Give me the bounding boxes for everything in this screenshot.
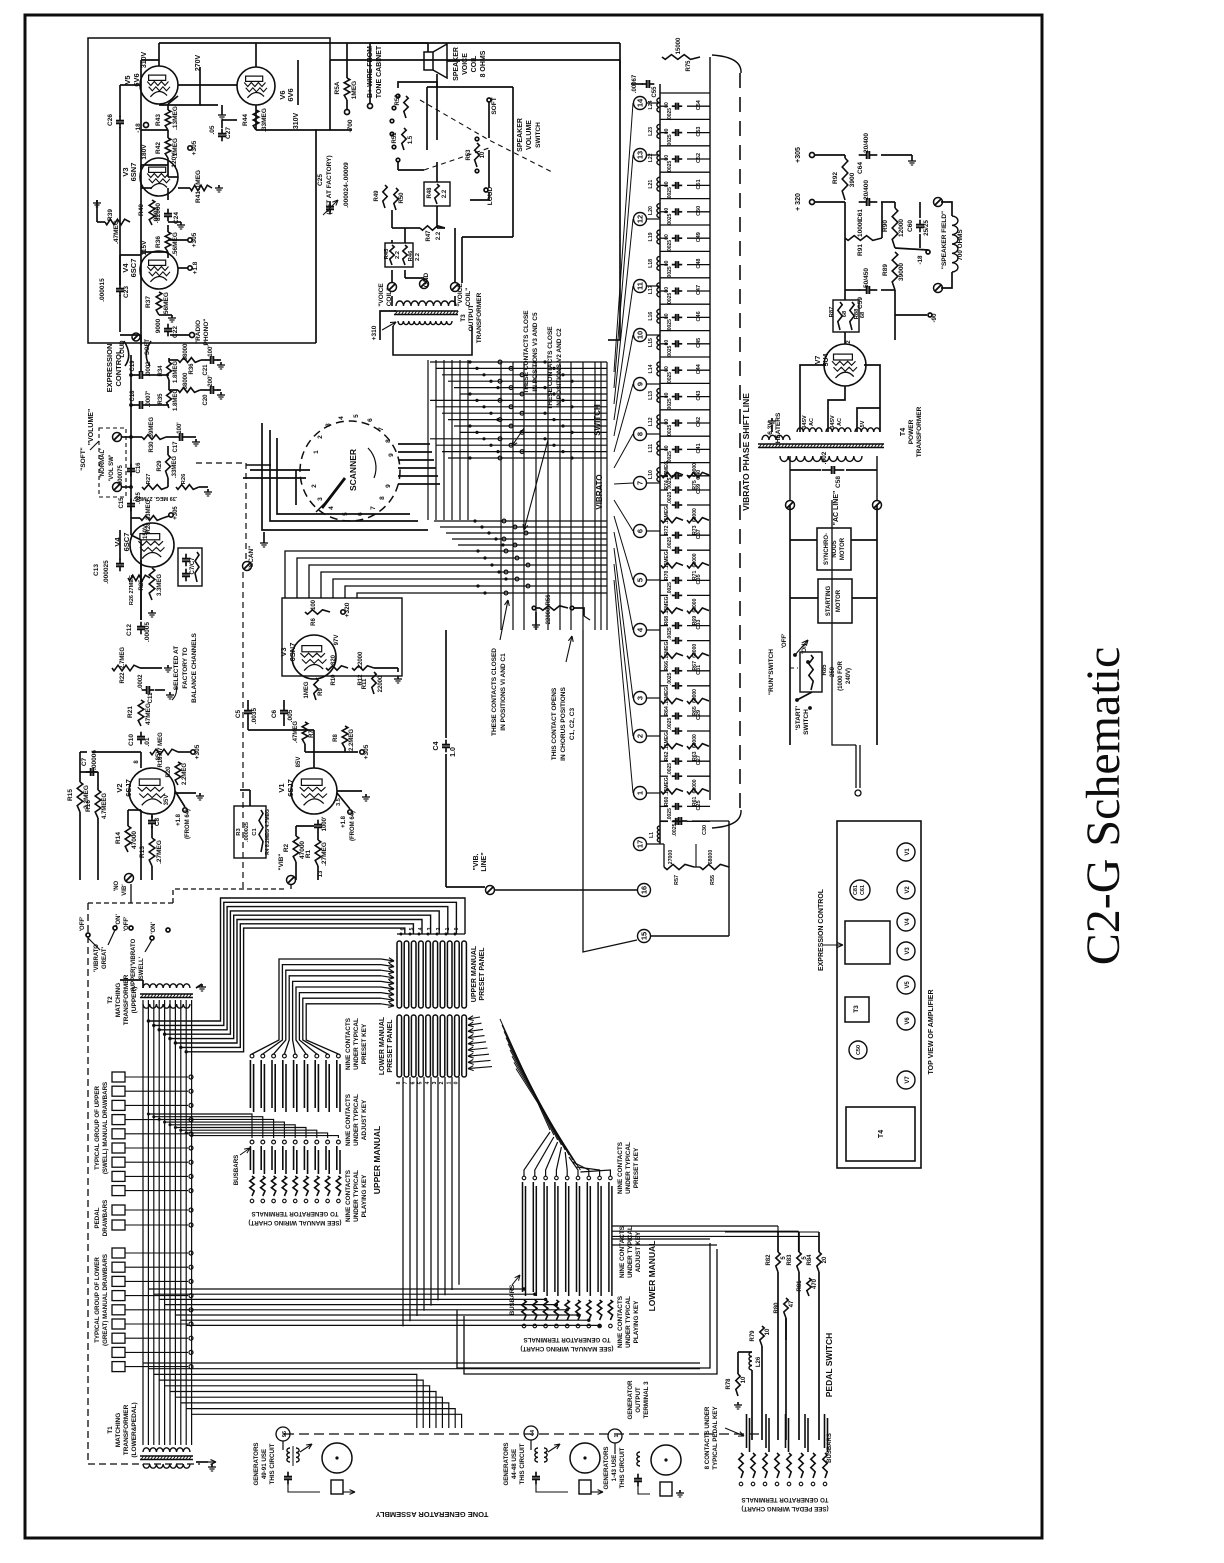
resistor R36 68000 xyxy=(169,359,178,361)
speaker section wires xyxy=(391,270,393,283)
svg-text:VIB': VIB' xyxy=(122,884,128,896)
svg-text:'ON': 'ON' xyxy=(116,914,122,926)
svg-text:THIS CIRCUIT: THIS CIRCUIT xyxy=(619,1447,626,1488)
svg-text:1MEG: 1MEG xyxy=(304,681,310,698)
terminal +305 ps xyxy=(810,153,815,158)
svg-text:.000024-.00009: .000024-.00009 xyxy=(343,162,350,208)
svg-text:L19: L19 xyxy=(648,232,654,241)
svg-text:6SN7: 6SN7 xyxy=(129,163,138,182)
svg-text:R9: R9 xyxy=(318,688,324,696)
svg-text:(1000 FOR: (1000 FOR xyxy=(838,660,844,690)
svg-text:AC: AC xyxy=(809,418,815,426)
fan wires from chain to grid xyxy=(614,103,633,372)
svg-text:IN POSITIONS VI AND C1: IN POSITIONS VI AND C1 xyxy=(500,653,507,731)
svg-text:68000: 68000 xyxy=(183,372,189,389)
svg-text:00: 00 xyxy=(664,392,670,398)
svg-text:R21: R21 xyxy=(127,706,134,718)
svg-text:+1.8: +1.8 xyxy=(192,261,199,274)
resistor R13 .27MEG xyxy=(149,838,155,866)
capacitor C26 xyxy=(119,116,121,121)
svg-text:R64: R64 xyxy=(664,706,670,716)
T1 transformer xyxy=(143,1448,190,1452)
svg-text:TRANSFORMER: TRANSFORMER xyxy=(916,406,923,457)
svg-text:V7: V7 xyxy=(905,1076,911,1084)
svg-text:UNDER TYPICAL: UNDER TYPICAL xyxy=(625,1142,632,1194)
svg-text:"SOFT": "SOFT" xyxy=(80,447,87,471)
svg-text:1.8MEG: 1.8MEG xyxy=(173,389,179,411)
svg-text:L11: L11 xyxy=(648,444,654,453)
resistor R79 10 xyxy=(760,1326,764,1346)
pedal contact resistors xyxy=(739,1453,743,1478)
svg-text:GENERATORS: GENERATORS xyxy=(603,1446,610,1489)
svg-text:00: 00 xyxy=(664,181,670,187)
svg-text:R45: R45 xyxy=(384,248,390,259)
svg-text:C6: C6 xyxy=(271,709,278,718)
amp view tubes xyxy=(897,843,915,861)
wires V1 stage xyxy=(247,700,249,706)
svg-text:PHONO": PHONO" xyxy=(203,319,210,346)
svg-text:R13: R13 xyxy=(139,846,146,858)
resistor R29 .33MEG xyxy=(166,455,171,478)
svg-text:UNDER TYPICAL: UNDER TYPICAL xyxy=(353,1094,360,1146)
svg-text:R1: R1 xyxy=(305,849,312,858)
circled 17 16 15 xyxy=(634,838,647,851)
upper manual adjust contacts xyxy=(250,1140,254,1144)
svg-text:.33MEG: .33MEG xyxy=(172,456,178,478)
svg-text:TRANSFORMER: TRANSFORMER xyxy=(476,292,483,343)
svg-text:C10: C10 xyxy=(128,734,135,746)
svg-text:00: 00 xyxy=(664,155,670,161)
svg-text:SOFT: SOFT xyxy=(491,97,498,114)
svg-text:.002: .002 xyxy=(821,451,828,464)
svg-text:7: 7 xyxy=(636,481,645,485)
amp view V7 xyxy=(897,1071,915,1089)
svg-text:10: 10 xyxy=(636,331,645,339)
svg-text:6: 6 xyxy=(636,529,645,533)
svg-text:9: 9 xyxy=(636,382,645,386)
svg-text:00: 00 xyxy=(664,234,670,240)
svg-text:TRANSFORMER: TRANSFORMER xyxy=(123,974,130,1025)
svg-text:.15MEG: .15MEG xyxy=(664,687,670,705)
wire top bus xyxy=(159,42,620,44)
svg-text:THESE CONTACTS CLOSE: THESE CONTACTS CLOSE xyxy=(523,310,530,394)
svg-text:.0025: .0025 xyxy=(667,187,673,200)
svg-text:C52: C52 xyxy=(696,153,702,163)
svg-text:4: 4 xyxy=(338,416,345,420)
svg-text:C12: C12 xyxy=(126,624,133,636)
svg-text:+305: +305 xyxy=(363,744,370,759)
T3 enclosure box xyxy=(393,326,472,355)
contact grid upper rows xyxy=(430,361,607,363)
amp to T3 wires xyxy=(316,130,330,343)
motor wires xyxy=(789,505,791,745)
svg-text:8: 8 xyxy=(636,432,645,436)
capacitor C10 .01 xyxy=(140,732,142,737)
ac line terminals xyxy=(786,501,795,510)
svg-text:C13: C13 xyxy=(93,564,100,576)
wire bundle manual to pedal xyxy=(612,1225,778,1227)
svg-text:R50: R50 xyxy=(399,192,405,204)
svg-text:49-91 USE: 49-91 USE xyxy=(261,1449,268,1479)
amp view T3 xyxy=(845,997,869,1022)
terminal +1.8 xyxy=(188,266,192,270)
capacitor C15 .025 xyxy=(130,499,132,504)
svg-text:C11: C11 xyxy=(148,692,154,703)
resistor R81 470 xyxy=(807,1278,811,1296)
lower manual fan xyxy=(524,1132,550,1176)
svg-text:120V: 120V xyxy=(171,152,178,168)
svg-text:L16: L16 xyxy=(648,312,654,321)
svg-text:GENERATOR: GENERATOR xyxy=(627,1380,634,1419)
capacitor C59 50/450 xyxy=(859,289,867,291)
starting motor xyxy=(818,579,852,623)
svg-text:.0025: .0025 xyxy=(667,161,673,174)
svg-text:L23: L23 xyxy=(648,127,654,136)
wire circle16 left xyxy=(494,889,637,891)
lower panel right fan to lower manual xyxy=(500,1019,550,1130)
lower manual contacts xyxy=(522,1176,526,1180)
svg-text:PRESET PANEL: PRESET PANEL xyxy=(479,947,486,1001)
tube V1 6SJ7 xyxy=(291,768,337,814)
wire plate bus V5-V6 xyxy=(178,84,237,86)
svg-text:SOFT: SOFT xyxy=(145,339,151,355)
generator 3 terminal xyxy=(608,1429,622,1443)
svg-text:GENERATORS: GENERATORS xyxy=(253,1442,260,1485)
amp view C81 C61 xyxy=(850,880,870,900)
svg-text:BUSBARS: BUSBARS xyxy=(827,1433,833,1463)
svg-text:NINE CONTACTS: NINE CONTACTS xyxy=(619,1225,626,1278)
svg-text:THESE CONTACTS CLOSED: THESE CONTACTS CLOSED xyxy=(491,648,498,736)
phase shift ladder upper xyxy=(660,92,710,94)
svg-text:R55: R55 xyxy=(710,875,716,885)
svg-text:R62: R62 xyxy=(664,751,670,761)
svg-text:R81: R81 xyxy=(797,1280,803,1292)
svg-text:C39: C39 xyxy=(696,484,702,494)
svg-text:V6: V6 xyxy=(905,1017,911,1025)
svg-text:1.8MEG: 1.8MEG xyxy=(173,361,179,383)
svg-text:68: 68 xyxy=(860,311,866,318)
svg-text:3: 3 xyxy=(427,927,433,930)
svg-text:C22: C22 xyxy=(172,326,179,338)
svg-text:20/400: 20/400 xyxy=(863,133,870,153)
T2 secondary xyxy=(143,1004,190,1008)
svg-text:00: 00 xyxy=(664,128,670,134)
svg-text:C44: C44 xyxy=(696,363,702,374)
svg-text:12: 12 xyxy=(636,215,645,223)
svg-text:C19: C19 xyxy=(130,360,136,372)
svg-text:NOUS: NOUS xyxy=(832,540,838,557)
svg-text:C30: C30 xyxy=(702,825,708,835)
svg-text:FACTORY TO: FACTORY TO xyxy=(182,647,189,688)
svg-text:1: 1 xyxy=(445,927,451,930)
tone generator dash boundary xyxy=(88,903,200,1464)
svg-text:L24: L24 xyxy=(648,100,654,109)
svg-text:.15MEG: .15MEG xyxy=(664,732,670,750)
svg-text:5: 5 xyxy=(409,927,415,930)
svg-text:THIS CONTACT OPENS: THIS CONTACT OPENS xyxy=(551,687,558,760)
svg-text:.15MEG: .15MEG xyxy=(664,642,670,660)
svg-text:L14: L14 xyxy=(648,364,654,373)
svg-text:(SWELL) MANUAL DRAWBARS: (SWELL) MANUAL DRAWBARS xyxy=(102,1082,109,1174)
speaker volume switch contacts xyxy=(396,94,400,98)
resistor R39 .47MEG xyxy=(105,219,130,225)
svg-text:V2: V2 xyxy=(115,783,124,792)
capacitor C4 1.0 xyxy=(445,630,447,738)
svg-text:.000025: .000025 xyxy=(103,560,110,584)
svg-text:15000: 15000 xyxy=(676,37,682,54)
svg-text:100': 100' xyxy=(208,345,214,357)
svg-text:C41: C41 xyxy=(696,443,702,453)
ground ps1 xyxy=(911,158,913,161)
svg-text:7: 7 xyxy=(370,506,377,510)
svg-text:100: 100 xyxy=(311,599,317,610)
svg-text:85V: 85V xyxy=(156,750,162,761)
scanner pointer xyxy=(322,478,345,508)
svg-text:THESE CONTACTS CLOSE: THESE CONTACTS CLOSE xyxy=(547,326,554,410)
svg-text:L21: L21 xyxy=(648,180,654,189)
svg-text:C45: C45 xyxy=(696,338,702,348)
svg-text:.15MEG: .15MEG xyxy=(664,777,670,795)
capacitor C27 .05 xyxy=(221,129,223,134)
wire circle17 to rail xyxy=(647,843,664,845)
resistor R49 xyxy=(383,185,387,208)
resistor R16 4.7MEG xyxy=(95,790,101,818)
svg-text:.0025: .0025 xyxy=(667,425,673,438)
svg-text:BUSBARS: BUSBARS xyxy=(233,1155,240,1186)
svg-text:VOICE: VOICE xyxy=(462,53,469,75)
svg-text:44-48 USE: 44-48 USE xyxy=(511,1449,518,1479)
svg-text:V5: V5 xyxy=(123,75,132,84)
svg-text:R85: R85 xyxy=(822,664,828,676)
svg-text:C21: C21 xyxy=(203,364,209,376)
terminal +305 mid xyxy=(191,750,195,754)
svg-text:.000015: .000015 xyxy=(99,278,106,302)
svg-text:.47MEG: .47MEG xyxy=(113,220,120,244)
capacitor C21 100 xyxy=(201,359,206,361)
svg-text:.00005: .00005 xyxy=(144,622,151,642)
heater coil xyxy=(762,435,790,440)
svg-text:+305: +305 xyxy=(173,506,179,520)
svg-text:.0025: .0025 xyxy=(672,823,678,836)
svg-text:(GREAT) MANUAL DRAWBARS: (GREAT) MANUAL DRAWBARS xyxy=(102,1254,109,1346)
svg-text:68000: 68000 xyxy=(692,598,698,612)
svg-text:+305: +305 xyxy=(191,232,198,247)
svg-text:6SJ7: 6SJ7 xyxy=(124,779,133,797)
svg-text:C49: C49 xyxy=(696,232,702,242)
svg-text:R36: R36 xyxy=(189,363,195,375)
capacitor C12 .00005 xyxy=(140,622,142,627)
svg-text:R80: R80 xyxy=(774,1302,780,1314)
svg-text:2: 2 xyxy=(636,734,645,738)
svg-text:T4: T4 xyxy=(878,1130,885,1138)
svg-text:C59: C59 xyxy=(857,297,864,309)
svg-text:C18: C18 xyxy=(130,390,136,402)
svg-text:LOUD: LOUD xyxy=(120,340,126,358)
terminal +320 xyxy=(810,200,815,205)
capacitor C20 200 xyxy=(200,389,206,391)
svg-text:V1: V1 xyxy=(905,848,911,856)
B+ terminal xyxy=(368,104,373,109)
terminal +1.8 (from 64) xyxy=(183,808,187,812)
svg-text:TONE GENERATOR ASSEMBLY: TONE GENERATOR ASSEMBLY xyxy=(376,1510,489,1519)
svg-text:50/450: 50/450 xyxy=(863,268,870,288)
resistor R1 .27MEG xyxy=(315,840,321,866)
tube V2 6SJ7 xyxy=(129,768,175,814)
svg-text:2.7MEG: 2.7MEG xyxy=(120,647,126,669)
svg-text:R78: R78 xyxy=(726,1378,732,1390)
svg-text:SPEAKER: SPEAKER xyxy=(453,47,460,81)
svg-text:C27: C27 xyxy=(696,755,702,765)
resistor R9 1MEG xyxy=(314,678,318,700)
wire circle15 to rail xyxy=(651,935,729,937)
pedal wires xyxy=(777,1232,779,1252)
svg-text:(SEE MANUAL WIRING CHART): (SEE MANUAL WIRING CHART) xyxy=(248,1219,341,1226)
svg-text:V1: V1 xyxy=(277,783,286,792)
resistor R90 12000 xyxy=(892,208,898,248)
speaker field xyxy=(934,198,943,207)
svg-text:39000: 39000 xyxy=(898,263,905,281)
terminal -700 xyxy=(345,110,350,115)
svg-text:10: 10 xyxy=(765,1328,771,1335)
svg-text:.27MEG: .27MEG xyxy=(156,840,163,864)
switch wiper dashes xyxy=(420,100,552,172)
svg-text:SYNCHRO-: SYNCHRO- xyxy=(824,533,830,565)
svg-text:C81: C81 xyxy=(853,885,859,895)
capacitor C18 .0007 xyxy=(131,404,135,406)
svg-text:6: 6 xyxy=(400,927,406,930)
upper manual contacts xyxy=(250,1054,254,1058)
svg-text:R75: R75 xyxy=(686,60,692,72)
svg-text:700 OHMS: 700 OHMS xyxy=(957,229,964,260)
svg-text:PEDAL SWITCH: PEDAL SWITCH xyxy=(824,1333,834,1398)
svg-text:9: 9 xyxy=(385,484,392,488)
svg-text:.0025: .0025 xyxy=(667,240,673,253)
svg-text:C47: C47 xyxy=(696,285,702,295)
generator 1 magnet xyxy=(322,1443,352,1473)
svg-text:15: 15 xyxy=(640,932,649,940)
svg-text:UPPER MANUAL: UPPER MANUAL xyxy=(471,945,478,1002)
upper preset nest bundle xyxy=(148,898,465,1021)
svg-text:MATCHING: MATCHING xyxy=(115,1413,122,1448)
svg-text:C33: C33 xyxy=(696,620,702,630)
svg-text:.1MEG: .1MEG xyxy=(195,170,202,190)
svg-text:NINE CONTACTS: NINE CONTACTS xyxy=(345,1169,352,1222)
svg-text:'NO: 'NO xyxy=(114,880,120,891)
capacitor C11 .0002 xyxy=(142,689,147,691)
svg-text:R39: R39 xyxy=(107,209,114,221)
svg-text:(LOWER&PEDAL): (LOWER&PEDAL) xyxy=(131,1402,138,1457)
resistor R75 15000 top xyxy=(662,55,700,60)
svg-text:9000: 9000 xyxy=(155,318,162,333)
svg-text:NINE CONTACTS: NINE CONTACTS xyxy=(617,1141,624,1194)
svg-text:.0025: .0025 xyxy=(667,345,673,358)
svg-text:1: 1 xyxy=(636,791,645,795)
resistor R92 3900 xyxy=(842,158,848,200)
svg-text:VOLUME: VOLUME xyxy=(526,120,533,150)
speaker icon xyxy=(424,52,433,70)
svg-text:R68: R68 xyxy=(664,616,670,626)
resistor R34 1.8MEG xyxy=(167,362,172,380)
capacitor C61 20/400 xyxy=(859,201,867,203)
generator 2 terminal xyxy=(524,1426,538,1440)
svg-text:.27MEG: .27MEG xyxy=(321,842,328,866)
svg-text:(UPPER): (UPPER) xyxy=(131,987,138,1014)
svg-text:C1, C2, C3: C1, C2, C3 xyxy=(569,708,576,741)
svg-text:+ 320: + 320 xyxy=(795,193,802,211)
R56 22000 contact xyxy=(540,606,568,610)
resistor R83 5 xyxy=(797,1252,801,1272)
ac line box xyxy=(789,456,791,500)
contact grid lower rows xyxy=(434,520,607,522)
svg-text:0: 0 xyxy=(454,927,460,930)
svg-text:.000025: .000025 xyxy=(244,822,250,842)
svg-text:R82: R82 xyxy=(766,1254,772,1266)
svg-text:L10: L10 xyxy=(648,470,654,479)
svg-text:C5: C5 xyxy=(235,709,242,718)
svg-text:.005: .005 xyxy=(287,709,294,722)
terminal +305 lower xyxy=(188,238,192,242)
ground near V6 xyxy=(221,112,223,115)
svg-text:97V: 97V xyxy=(334,635,340,646)
svg-text:1: 1 xyxy=(614,1434,620,1437)
svg-text:10000: 10000 xyxy=(857,219,864,237)
svg-text:+305: +305 xyxy=(795,147,802,163)
svg-text:+305: +305 xyxy=(194,744,201,759)
start switch xyxy=(795,698,799,702)
svg-text:NINE CONTACTS: NINE CONTACTS xyxy=(617,1295,624,1348)
capacitor C64 20/400 xyxy=(859,154,867,156)
scanner nest wires xyxy=(270,430,418,521)
svg-text:7: 7 xyxy=(403,1081,409,1084)
svg-text:POWER: POWER xyxy=(908,419,915,444)
svg-text:2.2: 2.2 xyxy=(415,253,421,261)
upper manual adjust bundle xyxy=(148,1114,252,1138)
svg-text:C46: C46 xyxy=(696,311,702,321)
svg-text:TOP VIEW OF AMPLIFIER: TOP VIEW OF AMPLIFIER xyxy=(928,989,935,1074)
svg-text:'OFF': 'OFF' xyxy=(80,916,86,931)
svg-text:T4: T4 xyxy=(900,428,907,436)
svg-text:R6: R6 xyxy=(311,618,317,626)
svg-text:270V: 270V xyxy=(195,55,202,72)
svg-text:820: 820 xyxy=(331,654,337,665)
svg-text:TERMINAL 3: TERMINAL 3 xyxy=(643,1381,650,1419)
svg-text:BALANCE CHANNELS: BALANCE CHANNELS xyxy=(191,632,198,702)
tube V4 6SC7 upper xyxy=(140,251,178,289)
svg-text:1-43 USE: 1-43 USE xyxy=(611,1455,618,1482)
T2 transformer primary xyxy=(143,984,190,988)
resistors R45 R46 box xyxy=(385,243,413,267)
resistor R44 .33MEG xyxy=(253,110,259,130)
svg-text:'VIBRATO: 'VIBRATO xyxy=(94,944,100,972)
svg-text:8 CONTACTS UNDER: 8 CONTACTS UNDER xyxy=(704,1406,711,1469)
tube V6 6V6 xyxy=(237,67,275,105)
contact grid mid rails xyxy=(500,362,502,630)
bottom staircase bundle xyxy=(143,1362,700,1364)
svg-text:C61: C61 xyxy=(860,885,866,895)
svg-text:8: 8 xyxy=(385,439,392,443)
resistor R35b 68000 xyxy=(169,389,178,391)
svg-text:6: 6 xyxy=(367,418,374,422)
svg-text:TYPICAL PEDAL KEY: TYPICAL PEDAL KEY xyxy=(712,1405,719,1469)
svg-text:UNDER TYPICAL: UNDER TYPICAL xyxy=(353,1018,360,1070)
svg-text:C58: C58 xyxy=(835,476,842,488)
svg-text:MOTOR: MOTOR xyxy=(840,537,846,560)
tube V7 5U4 xyxy=(824,344,866,386)
svg-text:.0025: .0025 xyxy=(667,319,673,332)
resistor R50 xyxy=(394,188,398,210)
svg-text:2: 2 xyxy=(317,435,324,439)
svg-text:1MEG: 1MEG xyxy=(351,81,358,99)
